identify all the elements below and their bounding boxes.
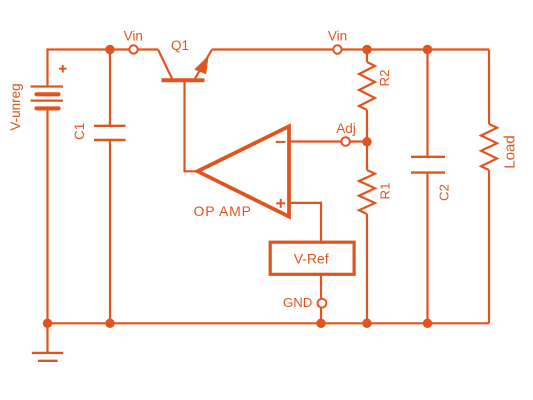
wire R1 bottom lead [366,214,368,323]
op-amp non-inverting input plus sign [276,199,285,208]
wire R1 top lead [366,142,368,170]
capacitor C1 plates [94,126,126,140]
svg-text:V-unreg: V-unreg [8,83,23,130]
node GND open circle [318,299,327,308]
V-Ref box U2 [270,242,354,274]
resistor R2 zigzag [359,62,375,110]
junction dot top rail R2 [362,45,372,55]
battery plus sign [59,65,67,73]
svg-text:Load: Load [501,135,518,168]
svg-text:R1: R1 [377,183,392,200]
svg-text:C1: C1 [72,123,87,140]
svg-text:V-Ref: V-Ref [294,251,329,267]
battery B1 plate long lower [31,99,64,101]
wire C1 top branch [109,50,111,126]
svg-text:Q1: Q1 [171,38,189,53]
wire V-Ref to GND node [320,274,322,323]
svg-text:C2: C2 [436,184,451,201]
svg-text:Vin: Vin [124,28,143,43]
op-amp inverting input minus sign [276,141,286,143]
junction dot bottom rail battery [43,319,53,329]
junction dot bottom rail GND [316,319,326,329]
svg-text:Vin: Vin [328,28,347,43]
wire C2 bottom branch [426,173,428,324]
capacitor C2 plates [411,157,445,173]
wire battery bottom to ground [46,109,48,353]
wire Load bottom [488,170,490,323]
ground symbol [32,353,64,361]
wire top rail right segment [212,48,489,50]
svg-text:OP AMP: OP AMP [194,203,252,219]
wire bottom rail [48,322,490,324]
junction dot Adj node [362,137,372,147]
junction dot bottom rail C2 [423,319,433,329]
transistor Q1 base bar [162,78,205,82]
wire op-amp output to Q1 base [185,82,198,171]
resistor R1 zigzag [359,170,375,214]
wire R2 bottom lead [366,110,368,142]
junction dot bottom rail R1 [362,319,372,329]
battery B1 plate short thick [37,92,59,96]
node Vin right open circle [333,45,341,53]
wire op-amp inverting input to Adj node [289,140,367,142]
junction dot top rail C1 [105,45,115,55]
wire C1 bottom branch [109,140,111,323]
resistor Load zigzag [481,124,497,170]
transistor Q1 collector lead [158,50,172,79]
transistor Q1 emitter lead [195,50,212,79]
wire right edge to Load [488,50,490,125]
junction dot bottom rail C1 [105,319,115,329]
wire op-amp non-inverting input to V-Ref [289,203,321,242]
wire C2 top branch [426,50,428,157]
svg-text:R2: R2 [377,70,392,87]
node Adj open circle [341,137,350,146]
battery B1 plate long top [31,85,64,87]
wire R2 top lead [366,50,368,63]
svg-text:GND: GND [283,295,312,310]
battery B1 plate short thick lower [37,106,59,110]
node Vin left open circle [129,45,137,53]
wire battery top to top rail left segment [48,50,159,87]
junction dot top rail C2 [423,45,433,55]
transistor Q1 emitter arrow [195,57,208,74]
svg-text:Adj: Adj [336,121,356,136]
op-amp U1 triangle [198,126,290,216]
